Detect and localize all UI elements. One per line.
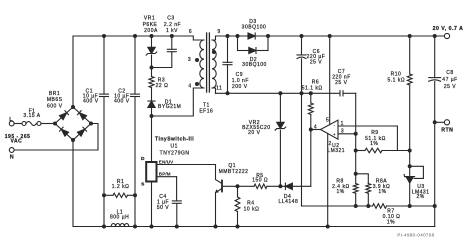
svg-text:6: 6 bbox=[189, 29, 192, 35]
svg-text:25 V: 25 V bbox=[310, 59, 322, 65]
svg-text:5.1 kΩ: 5.1 kΩ bbox=[388, 77, 406, 83]
svg-text:LL4148: LL4148 bbox=[279, 199, 299, 205]
svg-text:TNY279GN: TNY279GN bbox=[160, 151, 190, 157]
svg-text:1 kV: 1 kV bbox=[166, 28, 178, 34]
svg-text:BYG21M: BYG21M bbox=[158, 104, 181, 110]
svg-text:11: 11 bbox=[216, 85, 222, 91]
svg-text:5: 5 bbox=[326, 117, 329, 123]
svg-text:1.2 kΩ: 1.2 kΩ bbox=[112, 184, 130, 190]
svg-text:EF16: EF16 bbox=[199, 109, 213, 115]
svg-text:2.2 nF: 2.2 nF bbox=[164, 22, 181, 28]
svg-text:C3: C3 bbox=[167, 15, 174, 21]
svg-text:LM321: LM321 bbox=[327, 148, 345, 154]
svg-text:2%: 2% bbox=[416, 194, 424, 200]
svg-text:P6KE: P6KE bbox=[143, 22, 158, 28]
svg-text:TinySwitch-III: TinySwitch-III bbox=[155, 137, 194, 143]
svg-text:Q1: Q1 bbox=[228, 163, 236, 169]
svg-text:R6: R6 bbox=[312, 79, 319, 85]
svg-text:-: - bbox=[334, 123, 336, 128]
svg-text:1%: 1% bbox=[336, 189, 344, 195]
svg-text:1%: 1% bbox=[378, 189, 386, 195]
svg-text:22 Ω: 22 Ω bbox=[156, 83, 169, 89]
svg-text:L: L bbox=[9, 117, 13, 123]
svg-text:EN/UV: EN/UV bbox=[159, 159, 174, 164]
svg-text:1: 1 bbox=[341, 121, 344, 127]
svg-text:PI-4980-040708: PI-4980-040708 bbox=[397, 233, 434, 238]
svg-text:30BQ100: 30BQ100 bbox=[242, 24, 267, 30]
svg-text:BP/M: BP/M bbox=[159, 172, 171, 177]
svg-text:4: 4 bbox=[188, 83, 191, 89]
svg-text:S: S bbox=[141, 182, 145, 188]
svg-text:20 V: 20 V bbox=[248, 130, 260, 136]
svg-text:30BQ100: 30BQ100 bbox=[242, 62, 267, 68]
svg-text:20 V, 0.7 A: 20 V, 0.7 A bbox=[433, 26, 464, 32]
svg-text:N: N bbox=[10, 155, 14, 161]
svg-text:51.1 kΩ: 51.1 kΩ bbox=[302, 86, 323, 92]
svg-text:400 V: 400 V bbox=[83, 99, 99, 105]
svg-text:1%: 1% bbox=[387, 219, 395, 225]
svg-text:VR1: VR1 bbox=[144, 15, 155, 21]
svg-text:800 µH: 800 µH bbox=[110, 214, 129, 220]
svg-text:VAC: VAC bbox=[11, 138, 23, 144]
svg-text:600 V: 600 V bbox=[47, 104, 63, 110]
svg-text:4: 4 bbox=[314, 125, 317, 131]
svg-text:3: 3 bbox=[341, 129, 344, 135]
svg-text:3: 3 bbox=[188, 57, 191, 63]
svg-text:47 µF: 47 µF bbox=[442, 77, 457, 83]
svg-text:150 Ω: 150 Ω bbox=[252, 178, 268, 184]
svg-text:D: D bbox=[141, 156, 145, 162]
svg-text:200A: 200A bbox=[144, 28, 158, 34]
svg-text:C8: C8 bbox=[446, 70, 453, 76]
svg-text:1%: 1% bbox=[370, 141, 378, 147]
svg-text:+: + bbox=[333, 132, 336, 137]
svg-text:BR1: BR1 bbox=[49, 91, 60, 97]
svg-text:10 kΩ: 10 kΩ bbox=[244, 206, 260, 212]
svg-text:9: 9 bbox=[217, 29, 220, 35]
svg-text:MB6S: MB6S bbox=[47, 97, 63, 103]
svg-text:200 V: 200 V bbox=[232, 84, 248, 90]
svg-text:25 V: 25 V bbox=[335, 80, 347, 86]
svg-text:400 V: 400 V bbox=[114, 99, 130, 105]
svg-text:MMBT2222: MMBT2222 bbox=[219, 169, 249, 175]
svg-text:50 V: 50 V bbox=[157, 205, 169, 211]
svg-text:25 V: 25 V bbox=[444, 84, 456, 90]
svg-text:RTN: RTN bbox=[441, 127, 453, 133]
svg-text:U1: U1 bbox=[170, 144, 177, 150]
svg-text:3.15 A: 3.15 A bbox=[23, 113, 40, 119]
